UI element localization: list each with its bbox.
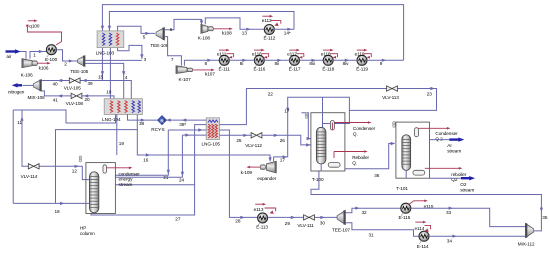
stream 5 wire LNG-103 to TEE-106 — [118, 26, 155, 39]
svg-text:11: 11 — [17, 120, 22, 125]
svg-text:E-118: E-118 — [322, 67, 334, 72]
HP column status pill — [79, 156, 81, 162]
svg-text:expander: expander — [257, 176, 276, 181]
HP column condenser drum — [103, 165, 107, 173]
T-101 condenser energy stream — [419, 127, 459, 141]
stream 18 wire into HP column — [13, 202, 89, 214]
svg-text:MIX-112: MIX-112 — [518, 242, 535, 247]
T-101 column vessel — [402, 135, 411, 171]
svg-text:k-109: k-109 — [241, 170, 253, 175]
svg-text:19: 19 — [119, 141, 125, 146]
svg-text:22: 22 — [268, 91, 274, 96]
svg-text:16: 16 — [143, 157, 149, 162]
stream 12 wire VLV-114 to HP column — [39, 165, 89, 180]
T-101 status pill — [393, 121, 395, 127]
stream 35 return wire MIX-112 to T-100 — [311, 171, 548, 231]
energy stream k-109 — [241, 165, 266, 175]
wire T-100 upper inlet stub — [302, 113, 312, 141]
valve VLV-113 — [382, 86, 399, 100]
svg-text:36: 36 — [374, 173, 380, 178]
wire T-101 vessel bottoms — [405, 170, 407, 178]
stream 2 wire E-100 to TEE-105 — [56, 50, 77, 67]
stream 29 wire E-113 to VLV-111 — [267, 216, 303, 226]
stream 40 wire VLV-105 to MIX-106 — [41, 79, 69, 87]
svg-text:air: air — [6, 54, 11, 59]
tee TEE-105 — [70, 56, 88, 75]
svg-text:20: 20 — [85, 97, 91, 102]
product stream Ar (bold arrow) — [430, 137, 465, 153]
svg-text:k107: k107 — [205, 72, 215, 77]
svg-text:k106: k106 — [39, 66, 49, 71]
svg-text:column: column — [80, 231, 95, 236]
wire stream 18 feeder vertical — [12, 110, 14, 203]
heat exchanger E-100 — [45, 45, 58, 63]
wire junction to LNG-104 inlet — [102, 81, 131, 99]
product stream O2 (bold arrow) — [430, 176, 476, 192]
svg-text:stream: stream — [460, 187, 474, 192]
LNG exchanger LNG-105 — [202, 118, 221, 147]
energy stream e118 — [321, 49, 338, 59]
svg-text:38*: 38* — [179, 122, 186, 127]
stream 36 wire T-100 to T-101 — [345, 142, 395, 178]
svg-text:T-101: T-101 — [396, 186, 408, 191]
heat exchanger E-111 — [219, 55, 231, 71]
wire TEE-105 outlet B / stream 4 to LNG-104 — [85, 63, 128, 98]
svg-text:e111: e111 — [217, 52, 227, 57]
stream 39 wire to VLV-105 — [80, 79, 102, 86]
stream 16 wire LNG-104 to expander — [137, 115, 271, 163]
heat exchanger E-114 — [417, 231, 429, 249]
svg-text:K-108: K-108 — [198, 36, 211, 41]
svg-text:30: 30 — [320, 220, 326, 225]
svg-text:E-114: E-114 — [417, 244, 429, 249]
feed stream air (bold arrow) — [6, 49, 21, 59]
compressor K-106 — [21, 59, 34, 78]
product stream nitrogen (bold arrow) — [8, 83, 25, 94]
svg-text:32: 32 — [362, 210, 368, 215]
stream 8 wire K-107 to E-111 — [184, 59, 219, 67]
svg-text:E-119: E-119 — [356, 67, 368, 72]
svg-text:8iv: 8iv — [343, 61, 349, 66]
svg-text:14*: 14* — [284, 31, 291, 36]
stream 10 wire LNG-103 down to LNG-104 — [106, 48, 112, 99]
stream 33 wire E-115 to MIX-112 — [411, 207, 526, 227]
svg-text:35: 35 — [542, 215, 548, 220]
mixer MIX-112 — [518, 223, 535, 246]
svg-text:10: 10 — [106, 90, 112, 95]
stream 14* wire E-112 out — [274, 28, 294, 36]
T-100 status pill — [305, 112, 307, 118]
svg-text:34: 34 — [447, 238, 453, 243]
stream 9 return loop wire to LNG-103 — [101, 5, 404, 61]
T-100 column vessel — [316, 127, 326, 164]
stream 28 wire LNG-105 down to E-113 — [220, 130, 258, 224]
svg-text:VLV-108: VLV-108 — [66, 101, 84, 106]
svg-text:26: 26 — [280, 138, 286, 143]
energy stream e114 — [415, 221, 431, 232]
stream 32 wire TEE-107 to E-115 — [345, 207, 401, 215]
T-101 reboiler energy stream — [425, 167, 467, 182]
svg-text:E-112: E-112 — [264, 36, 276, 41]
svg-text:e119: e119 — [355, 52, 365, 57]
svg-text:8ii: 8ii — [275, 61, 279, 66]
recycle RCY-5 — [151, 116, 166, 132]
energy stream e119 — [355, 49, 372, 59]
compressor K-107 — [176, 66, 191, 82]
valve VLV-114 — [21, 164, 39, 179]
svg-text:e113: e113 — [254, 207, 264, 212]
energy stream k108 — [208, 27, 233, 36]
T-101 reboiler drum — [413, 170, 425, 175]
svg-text:k108: k108 — [222, 31, 232, 36]
svg-text:8i: 8i — [240, 61, 244, 66]
stream 31 wire TEE-107 to E-114 — [345, 223, 419, 238]
wire HP column side draw — [115, 184, 194, 186]
wire x182 to LNG-105 inlet — [182, 133, 206, 136]
wire junction to LNG-104 second inlet — [110, 96, 114, 99]
tee TEE-107 — [332, 210, 350, 232]
stream 14* return loop wire to LNG-103 — [108, 12, 294, 31]
stream 26 wire VLV-112 to T-100 — [262, 134, 311, 147]
T-100 reboiler energy stream — [334, 150, 370, 165]
HP column condenser energy stream — [107, 167, 141, 187]
stream 19 wire LNG-104 down — [117, 115, 125, 156]
wire LNG-104 to VLV-114 chain — [17, 110, 115, 163]
wire to VLV-114 — [22, 163, 28, 166]
svg-text:VLV-111: VLV-111 — [297, 223, 314, 228]
svg-text:25: 25 — [236, 138, 242, 143]
svg-text:33: 33 — [446, 210, 452, 215]
expander (turbine) — [257, 161, 276, 181]
svg-text:29: 29 — [285, 221, 291, 226]
svg-text:28: 28 — [235, 219, 241, 224]
energy stream e117 — [287, 49, 304, 59]
svg-text:VLV-105: VLV-105 — [64, 85, 82, 90]
wires and stream labels 8i-8iv,9 between E-111..E-119 — [229, 59, 404, 67]
wire LNG-105 left port to vertical x195 — [91, 125, 206, 222]
stream 24 wire into HP column — [115, 135, 184, 182]
svg-text:39: 39 — [88, 81, 94, 86]
svg-text:RCY-5: RCY-5 — [151, 127, 165, 132]
stream 20 wire to VLV-108 — [82, 94, 110, 102]
svg-text:31: 31 — [369, 232, 375, 237]
svg-text:Q.: Q. — [352, 161, 357, 166]
svg-text:TEE-107: TEE-107 — [332, 228, 350, 233]
svg-text:18: 18 — [55, 209, 61, 214]
svg-text:13: 13 — [242, 31, 248, 36]
LNG exchanger LNG-104 — [102, 99, 142, 122]
energy stream e112 — [262, 15, 281, 26]
stream 25 wire LNG-105 to VLV-112 — [220, 134, 252, 143]
wire TEE-105 outlet A to node 3 junction — [85, 59, 142, 61]
valve VLV-105 — [64, 78, 82, 91]
stream 41 wire VLV-108 to MIX-106 — [41, 91, 70, 103]
stream 17 wire expander to condenser line — [274, 97, 350, 163]
stream 7 wire TEE-106 to K-107 — [165, 37, 182, 66]
svg-text:12: 12 — [72, 169, 78, 174]
svg-text:38: 38 — [139, 121, 145, 126]
svg-text:23: 23 — [427, 92, 433, 97]
stream 34 wire E-114 to MIX-112 — [429, 235, 526, 244]
T-101 condenser drum — [415, 128, 419, 137]
heat exchanger E-113 — [256, 213, 268, 230]
svg-text:K-107: K-107 — [179, 77, 192, 82]
energy stream e116 — [252, 49, 269, 59]
stream 1 wire K-106 to E-100 — [30, 50, 47, 59]
T-100 condenser energy stream — [332, 121, 375, 136]
wire air to K-106 — [20, 52, 26, 59]
stream 6 wire TEE-106 to K-108 — [165, 19, 204, 32]
energy stream k107 — [187, 68, 215, 77]
T-100 reboiler drum — [328, 163, 340, 168]
svg-text:stream: stream — [447, 148, 461, 153]
wire x168 to LNG-105 inlet — [168, 128, 206, 131]
wire T-100 vessel to reboiler — [320, 164, 322, 171]
energy stream e113 — [254, 203, 276, 214]
stream 38 wire LNG-104 to RCY-5 — [128, 115, 158, 126]
stream 13 wire K-108 to E-112 — [205, 18, 264, 36]
svg-text:24: 24 — [179, 177, 185, 182]
svg-text:41: 41 — [53, 97, 59, 102]
svg-text:T-100: T-100 — [312, 177, 324, 182]
heat exchanger E-119 — [356, 55, 368, 71]
heat exchanger E-117 — [289, 55, 301, 71]
valve VLV-111 — [297, 215, 314, 228]
mixer MIX-106 — [28, 80, 46, 101]
svg-text:e118: e118 — [321, 52, 331, 57]
svg-text:VLV-114: VLV-114 — [21, 174, 38, 179]
heat exchanger E-116 — [254, 55, 266, 71]
LNG exchanger LNG-103 — [96, 31, 124, 56]
stream 30 wire VLV-111 to TEE-107 — [315, 216, 337, 226]
energy stream e115 — [409, 200, 434, 209]
svg-text:Condenser: Condenser — [353, 126, 376, 131]
svg-text:LNG-103: LNG-103 — [96, 50, 115, 55]
stream 15 wire LNG-103 down to junction — [98, 48, 104, 81]
energy stream e111 — [217, 49, 234, 59]
svg-text:E-113: E-113 — [256, 225, 268, 230]
svg-text:VLV-112: VLV-112 — [245, 143, 262, 148]
svg-text:MIX-106: MIX-106 — [28, 95, 46, 100]
svg-text:E-116: E-116 — [254, 67, 266, 72]
heat exchanger E-115 — [399, 203, 411, 220]
heat exchanger E-112 — [264, 25, 276, 41]
svg-text:stream: stream — [119, 182, 133, 187]
energy stream q100 — [26, 20, 61, 45]
svg-text:K-106: K-106 — [21, 72, 34, 77]
svg-text:27: 27 — [175, 217, 181, 222]
svg-text:e114: e114 — [415, 226, 425, 231]
svg-text:Reboiler: Reboiler — [352, 155, 369, 160]
valve VLV-112 — [245, 133, 262, 149]
svg-text:HP: HP — [80, 225, 86, 230]
stream 3 wire LNG-103 loop — [118, 45, 147, 62]
svg-text:nitrogen: nitrogen — [8, 89, 25, 94]
compressor K-108 — [198, 24, 211, 40]
svg-text:E-117: E-117 — [289, 67, 301, 72]
energy stream k106 — [32, 61, 51, 71]
svg-text:15: 15 — [98, 74, 104, 79]
svg-text:e116: e116 — [252, 52, 262, 57]
HP column sub-flowsheet box — [80, 163, 115, 236]
wire MIX-106 outlet to nitrogen — [23, 84, 34, 86]
stream 38* wire LNG-105 to RCY-5 — [166, 118, 206, 127]
svg-text:Q 2: Q 2 — [435, 136, 443, 141]
svg-text:TEE-105: TEE-105 — [70, 69, 88, 74]
stream 21 wire into HP column — [115, 130, 170, 180]
svg-text:TEE-106: TEE-106 — [150, 43, 168, 48]
svg-text:E-100: E-100 — [45, 57, 58, 62]
svg-text:e112: e112 — [262, 18, 272, 23]
wire y110 horizontal — [13, 109, 22, 111]
tee TEE-106 — [150, 28, 168, 48]
svg-text:Q.: Q. — [353, 132, 358, 137]
svg-text:17: 17 — [280, 158, 286, 163]
svg-text:8iii: 8iii — [309, 61, 314, 66]
column T-100 sub-flowsheet box — [311, 113, 345, 182]
HP column vessel — [90, 172, 99, 213]
T-100 condenser drum — [330, 121, 334, 131]
valve VLV-108 — [66, 93, 84, 106]
svg-text:40: 40 — [53, 81, 59, 86]
wire LNG-104 branch to stream 18 feeder — [56, 130, 138, 204]
column T-101 sub-flowsheet box — [396, 122, 430, 191]
svg-text:E-115: E-115 — [399, 215, 411, 220]
heat exchanger E-118 — [322, 55, 334, 71]
svg-text:LNG-105: LNG-105 — [202, 141, 221, 146]
wire T-100 overhead to condenser — [323, 97, 331, 127]
svg-text:VLV-113: VLV-113 — [382, 95, 399, 100]
stream 23 wire VLV-113 loop to condenser line — [349, 87, 437, 111]
svg-text:17: 17 — [284, 109, 290, 114]
stream 22 wire LNG-105 to VLV-113 — [220, 89, 387, 125]
svg-text:e117: e117 — [287, 52, 297, 57]
svg-text:LNG-104: LNG-104 — [102, 117, 121, 122]
svg-text:E-111: E-111 — [219, 67, 231, 72]
svg-text:q100: q100 — [29, 24, 40, 29]
